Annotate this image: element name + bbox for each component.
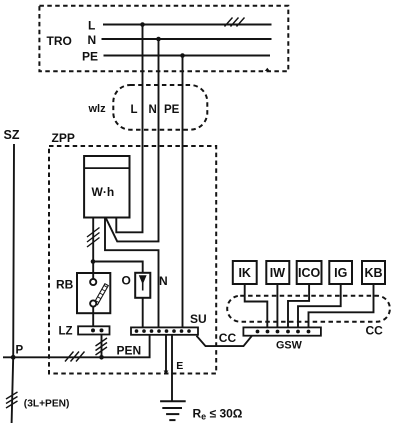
earthing bar GSW bbox=[243, 327, 321, 335]
wire SU stub to ZPP edge bbox=[165, 335, 167, 372]
node N tap bbox=[156, 37, 161, 42]
wire SZ vertical bbox=[12, 144, 14, 423]
svg-text:O: O bbox=[122, 274, 131, 288]
wire branch to surge arrester bbox=[93, 262, 143, 273]
box IK bbox=[233, 261, 257, 284]
box IW bbox=[266, 261, 289, 284]
svg-text:E: E bbox=[176, 360, 183, 372]
wire N from TRO to meter bbox=[106, 39, 159, 241]
wire arrester to SU bbox=[142, 298, 144, 328]
box IG bbox=[329, 261, 352, 284]
svg-text:PEN: PEN bbox=[117, 344, 142, 358]
arrester arrow symbol bbox=[139, 275, 147, 284]
svg-text:RB: RB bbox=[56, 278, 74, 292]
svg-text:ZPP: ZPP bbox=[52, 131, 75, 145]
box ICO bbox=[297, 261, 322, 284]
wire L from TRO to meter bbox=[116, 25, 142, 233]
node SZ junction bbox=[11, 355, 16, 360]
hatch on PEN line bbox=[65, 352, 85, 362]
svg-text:LZ: LZ bbox=[59, 326, 73, 338]
line L bbox=[103, 24, 272, 26]
earth electrode symbol bbox=[160, 400, 186, 402]
ZPP dashed enclosure bbox=[49, 146, 216, 374]
terminal strip LZ bbox=[78, 326, 109, 334]
line PE bbox=[104, 55, 271, 57]
svg-text:W·h: W·h bbox=[92, 185, 115, 199]
svg-text:L: L bbox=[131, 104, 138, 116]
node PE tap bbox=[180, 53, 185, 58]
svg-text:IG: IG bbox=[334, 266, 347, 280]
hatch on SZ lower wire bbox=[6, 392, 18, 408]
wire meter N output to SU bbox=[105, 218, 159, 328]
GSW terminal dots bbox=[256, 330, 311, 334]
node L tap bbox=[140, 22, 145, 27]
arrow on TRO bottom edge bbox=[265, 68, 270, 71]
svg-text:IW: IW bbox=[270, 266, 285, 280]
wire meter L output to RB bbox=[92, 218, 94, 279]
wire KB to GSW bbox=[309, 284, 374, 327]
wire IG to GSW bbox=[298, 284, 341, 327]
svg-text:IK: IK bbox=[238, 266, 251, 280]
wire RB to LZ bbox=[92, 307, 94, 327]
wire ICO to GSW bbox=[288, 284, 309, 327]
svg-text:PE: PE bbox=[82, 49, 98, 63]
RB contact bottom bbox=[90, 300, 96, 306]
LZ terminal dots bbox=[91, 328, 95, 332]
svg-text:P: P bbox=[16, 345, 24, 357]
svg-text:CC: CC bbox=[219, 331, 237, 345]
RB contact top bbox=[90, 279, 96, 285]
box KB bbox=[362, 261, 385, 284]
TRO dashed enclosure bbox=[39, 6, 288, 72]
svg-text:SU: SU bbox=[190, 312, 207, 326]
hatch on line L bbox=[225, 18, 245, 27]
wire SU to GSW equipotential link bbox=[197, 336, 253, 346]
wire IW to GSW bbox=[276, 284, 278, 327]
PEN line P bbox=[3, 335, 150, 358]
svg-text:wlz: wlz bbox=[88, 103, 107, 115]
svg-text:Re ≤ 30Ω: Re ≤ 30Ω bbox=[193, 407, 243, 422]
svg-text:SZ: SZ bbox=[4, 128, 20, 142]
RB fuse blade bbox=[94, 284, 108, 305]
svg-text:(3L+PEN): (3L+PEN) bbox=[24, 399, 70, 410]
energy meter W·h bbox=[84, 156, 129, 218]
svg-text:L: L bbox=[88, 19, 95, 33]
wire SU earthing conductor E bbox=[171, 335, 173, 402]
svg-text:ICO: ICO bbox=[298, 266, 321, 280]
SU terminal dots bbox=[135, 329, 191, 333]
surge arrester box T bbox=[135, 273, 150, 298]
svg-text:KB: KB bbox=[364, 266, 382, 280]
hatch on LZ wire bbox=[96, 338, 108, 355]
node LZ on PEN line bbox=[99, 355, 104, 360]
wire PE from TRO to SU bbox=[182, 56, 184, 328]
wire IK to GSW bbox=[245, 284, 268, 327]
wire LZ to PEN line bbox=[101, 335, 103, 358]
svg-text:PE: PE bbox=[164, 104, 180, 116]
consumer circuits capsule bbox=[227, 296, 390, 322]
hatch on meter output wire bbox=[87, 228, 100, 248]
svg-text:N: N bbox=[149, 104, 157, 116]
wlz cable capsule bbox=[113, 85, 207, 130]
svg-text:GSW: GSW bbox=[276, 340, 303, 352]
svg-text:N: N bbox=[159, 274, 168, 288]
line N bbox=[102, 38, 272, 40]
svg-text:N: N bbox=[88, 33, 97, 47]
svg-text:CC: CC bbox=[366, 324, 384, 338]
svg-text:TRO: TRO bbox=[47, 34, 72, 48]
terminal strip SU bbox=[131, 327, 198, 334]
main breaker RB bbox=[77, 273, 110, 313]
node meter output branch bbox=[91, 259, 96, 264]
